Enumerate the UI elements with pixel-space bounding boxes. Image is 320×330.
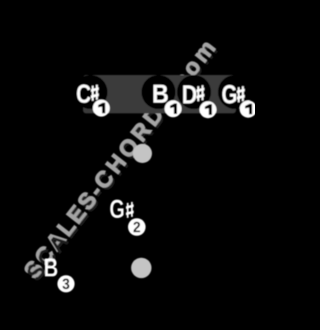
watermark dark emboss copy SCALES-CHORDS.com	[27, 45, 218, 280]
watermark SCA carve overlay	[28, 237, 70, 280]
finger badge 1	[165, 100, 182, 117]
label G (bar G#)	[222, 85, 236, 103]
label B (bar)	[154, 85, 168, 103]
sharp of bar G#	[237, 86, 245, 102]
fret marker dot upper	[133, 144, 152, 163]
finger badge 1	[200, 101, 217, 118]
sharp of lower G#	[126, 202, 134, 218]
label B (lower)	[45, 259, 57, 277]
finger badge 2	[128, 218, 146, 236]
note circle C#	[74, 75, 108, 109]
fret marker dot lower	[131, 258, 151, 278]
label D (bar D#)	[183, 86, 196, 104]
note circle G#	[218, 75, 252, 109]
label C (bar C#)	[77, 84, 90, 102]
note circle D#	[177, 75, 211, 109]
watermark light copy SCALES-CHORDS.com	[25, 43, 216, 278]
finger badge 1	[93, 100, 110, 117]
note circle B	[142, 75, 176, 109]
finger badge 3	[57, 275, 74, 292]
barre bar	[83, 75, 236, 113]
label G (lower G#)	[110, 200, 123, 218]
finger badge 1	[240, 101, 257, 118]
sharp of D#	[197, 85, 205, 101]
sharp of C#	[91, 85, 99, 101]
